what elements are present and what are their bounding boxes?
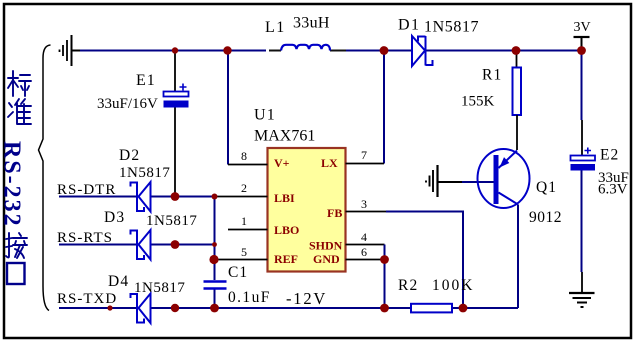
wire FB net: [386, 212, 463, 309]
transistor Q1: [478, 149, 530, 208]
ground GND2: [426, 165, 438, 197]
label 标准RS-232接口: [6, 71, 31, 284]
svg-text:V+: V+: [274, 156, 290, 170]
svg-text:3V: 3V: [574, 20, 591, 35]
resistor R2: [411, 304, 452, 313]
junction dot RS-TXD left: [171, 304, 179, 312]
svg-text:R1: R1: [482, 67, 503, 84]
准: [8, 99, 31, 124]
junction dot RS-DTR / E1: [171, 192, 180, 201]
U1 pin 8 stub: [228, 164, 268, 166]
svg-text:RS-TXD: RS-TXD: [57, 291, 117, 307]
svg-text:FB: FB: [327, 206, 342, 220]
svg-text:155K: 155K: [461, 94, 495, 110]
svg-text:R2: R2: [398, 277, 419, 294]
capacitor E1: [164, 84, 189, 108]
svg-text:D2: D2: [119, 147, 140, 164]
svg-text:6: 6: [361, 245, 367, 259]
diode D1: [412, 36, 433, 66]
svg-text:8: 8: [241, 149, 247, 163]
svg-text:2: 2: [241, 181, 247, 195]
svg-text:U1: U1: [254, 107, 276, 124]
svg-text:33uH: 33uH: [293, 15, 330, 32]
U1 pin 6 stub: [346, 259, 385, 261]
svg-text:1N5817: 1N5817: [134, 280, 185, 296]
junction dot GND / SHDN drop: [380, 255, 389, 264]
svg-text:33uF/16V: 33uF/16V: [97, 96, 158, 112]
svg-text:1: 1: [241, 214, 247, 228]
svg-text:REF: REF: [274, 252, 298, 266]
wire E1 lead upper: [174, 53, 176, 92]
junction dot RS-RTS left: [171, 240, 180, 249]
diode D4: [131, 293, 151, 324]
svg-text:1N5817: 1N5817: [424, 19, 479, 36]
svg-text:3: 3: [361, 197, 367, 211]
ground GND3: [569, 293, 595, 307]
interface brace: [39, 45, 51, 311]
wire SHDN/GND drop: [384, 245, 386, 309]
标: [8, 71, 31, 96]
svg-text:LX: LX: [321, 156, 338, 170]
svg-text:E1: E1: [136, 72, 156, 89]
junction dot RS-TXD / C1: [210, 304, 219, 313]
junction dot top rail / V+: [223, 46, 231, 54]
U1 pin 5 stub: [215, 259, 268, 261]
junction dot RS-RTS / C1 column: [212, 242, 217, 247]
svg-text:4: 4: [361, 230, 367, 244]
wire RS-RTS: [59, 244, 215, 246]
junction dot top rail / R1: [512, 46, 521, 55]
svg-text:GND: GND: [313, 252, 340, 266]
wire C1 column: [214, 197, 216, 309]
svg-text:RS-232: RS-232: [0, 141, 25, 228]
capacitor E2: [571, 148, 596, 171]
svg-text:D1: D1: [398, 17, 421, 34]
inductor L1: [281, 45, 330, 51]
junction dot REF / C1 column: [209, 255, 218, 264]
wire Q1 base: [439, 181, 463, 183]
svg-text:SHDN: SHDN: [309, 239, 343, 253]
junction dot RS-TXD small: [107, 305, 112, 310]
wire V+ drop: [227, 53, 229, 165]
svg-text:E2: E2: [600, 147, 619, 164]
wire E2 column upper: [581, 53, 583, 120]
svg-text:6.3V: 6.3V: [598, 182, 628, 198]
svg-text:L1: L1: [265, 19, 286, 36]
U1 pin 2 stub: [215, 196, 268, 198]
diode D2: [131, 182, 151, 213]
svg-text:1N5817: 1N5817: [146, 213, 197, 229]
junction dot top rail / E1: [172, 47, 178, 53]
capacitor C1: [204, 282, 227, 289]
junction dot top rail / E2: [577, 46, 586, 55]
wire RS-TXD / bottom rail: [59, 307, 518, 309]
power 3V terminal: [574, 20, 591, 47]
svg-text:Q1: Q1: [536, 179, 557, 196]
svg-text:7: 7: [361, 148, 367, 162]
U1 pin 7 stub: [346, 163, 385, 165]
wire top rail: [80, 50, 582, 52]
U1 pin 1 stub: [228, 229, 268, 231]
wire LX drop: [383, 53, 385, 164]
diode D3: [131, 230, 151, 261]
U1 pin 4 stub: [346, 244, 385, 246]
svg-text:LBI: LBI: [274, 191, 295, 205]
svg-text:-12V: -12V: [286, 289, 327, 308]
wire RS-DTR: [59, 196, 215, 198]
svg-text:9012: 9012: [529, 209, 562, 226]
ground GND1: [60, 35, 81, 66]
svg-text:1N5817: 1N5817: [119, 165, 170, 181]
wire Q1 collector net: [517, 205, 519, 309]
svg-text:D3: D3: [104, 209, 125, 226]
U1 pin 3 stub: [346, 211, 387, 213]
svg-text:5: 5: [241, 245, 247, 259]
resistor R1: [516, 53, 518, 68]
svg-text:C1: C1: [228, 264, 248, 281]
ic U1 MAX761: [268, 148, 346, 272]
svg-text:LBO: LBO: [274, 223, 299, 237]
接: [6, 233, 27, 258]
junction dot bottom / FB: [459, 304, 468, 313]
svg-text:D4: D4: [108, 273, 129, 290]
wire E2 column lower: [581, 171, 583, 273]
junction dot RS-DTR / C1 column: [212, 194, 218, 200]
svg-text:0.1uF: 0.1uF: [228, 289, 271, 306]
junction dot top rail / LX: [380, 46, 389, 55]
svg-text:100K: 100K: [432, 277, 474, 294]
wire E1 lead lower: [174, 108, 176, 195]
口: [7, 263, 25, 284]
svg-text:MAX761: MAX761: [254, 128, 315, 145]
junction dot bottom / SHDN: [380, 304, 389, 313]
